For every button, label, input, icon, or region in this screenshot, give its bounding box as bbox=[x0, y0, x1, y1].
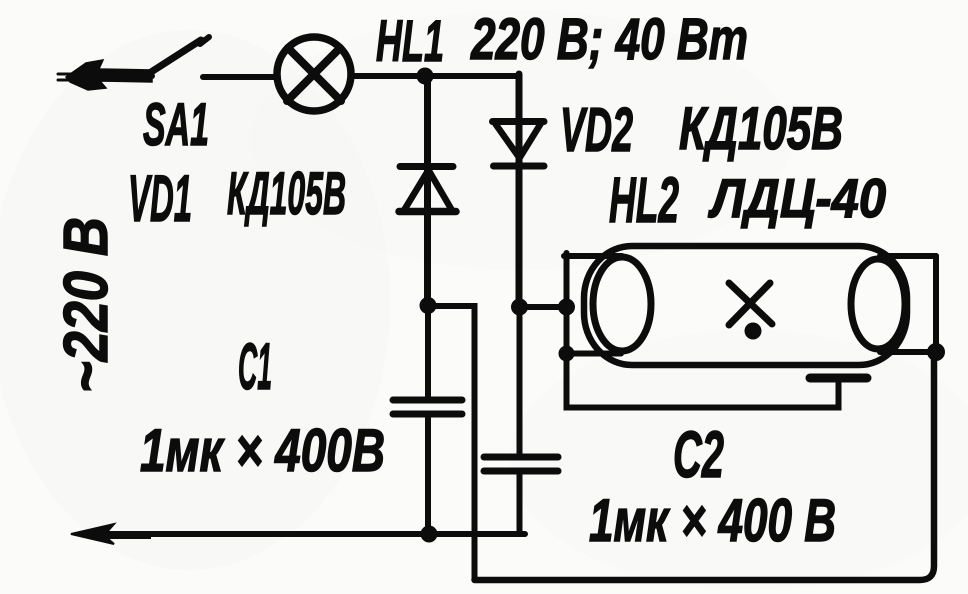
wire lamp left bracket top lead bbox=[564, 253, 622, 259]
lamp HL1 (circle with X) bbox=[277, 37, 351, 111]
wire bottom loop horizontal to right side bbox=[475, 352, 935, 580]
diode VD1 (pointing up) bbox=[399, 167, 456, 212]
wire C1 to bottom wire bbox=[425, 414, 431, 534]
switch SA1 bbox=[148, 37, 209, 74]
wire C1 branch vertical from node to C1 bbox=[425, 306, 431, 400]
node junction (429,534) bbox=[421, 526, 438, 543]
node arrow bottom-left (~220 V supply, lower lead) bbox=[71, 524, 150, 544]
diode VD2 (pointing down) bbox=[493, 122, 545, 167]
wire node(428,305) right and down to bottom loop bbox=[428, 306, 475, 580]
wire lamp left bracket vertical bbox=[564, 253, 570, 406]
wire lamp left bracket bottom lead bbox=[567, 351, 622, 357]
electrode T-bar under lamp bbox=[810, 374, 867, 383]
svg-text:C1: C1 bbox=[238, 329, 272, 403]
svg-text:220 В; 40 Вт: 220 В; 40 Вт bbox=[470, 7, 748, 72]
lamp HL2 tube outline bbox=[584, 246, 907, 365]
lamp HL2 left filament ellipse bbox=[593, 257, 651, 351]
wire lamp right bottom lead bbox=[880, 349, 936, 355]
wire node(519,307) to lamp left bracket bbox=[520, 304, 567, 310]
wire switch to lamp HL1 bbox=[203, 74, 278, 80]
wire top-left horizontal to switch bbox=[100, 73, 152, 79]
node junction (424,76) bbox=[417, 68, 434, 85]
node junction (936,352) bbox=[927, 343, 945, 361]
capacitor C1 bbox=[393, 400, 462, 414]
capacitor C2 bbox=[484, 457, 558, 471]
svg-text:VD1: VD1 bbox=[128, 161, 192, 235]
svg-text:C2: C2 bbox=[673, 417, 724, 491]
lamp HL2 right filament ellipse bbox=[851, 259, 905, 349]
wire C2 branch vertical bbox=[517, 307, 523, 457]
svg-text:КД105В: КД105В bbox=[227, 160, 346, 227]
wire C2 to bottom wire bbox=[517, 471, 523, 534]
svg-text:~220 В: ~220 В bbox=[52, 217, 121, 393]
wire bottom horizontal (arrow to C2 bottom) bbox=[105, 531, 525, 537]
wire top to VD2 corner bbox=[425, 73, 519, 79]
wire vertical through VD2 bbox=[516, 74, 523, 307]
node junction (566,307) lamp left bracket bbox=[558, 299, 575, 316]
node junction (428,305) bbox=[420, 297, 437, 314]
svg-text:HL1: HL1 bbox=[376, 9, 444, 74]
svg-text:КД105В: КД105В bbox=[679, 95, 843, 162]
wire lamp lower bus to electrode stem bbox=[567, 383, 839, 408]
wire lamp right bracket vertical bbox=[933, 256, 939, 352]
svg-text:1мк × 400 В: 1мк × 400 В bbox=[589, 487, 836, 554]
wire lamp HL1 to node at x=424 bbox=[351, 73, 424, 79]
svg-text:SA1: SA1 bbox=[143, 91, 209, 158]
node junction (566,353) bbox=[559, 346, 575, 362]
wire lamp right bracket top lead bbox=[880, 253, 936, 259]
svg-text:ЛДЦ-40: ЛДЦ-40 bbox=[707, 167, 886, 229]
node arrow top-left (~220 V supply, upper lead) bbox=[58, 60, 152, 90]
wire vertical through VD1 bbox=[424, 76, 431, 306]
svg-text:VD2: VD2 bbox=[560, 96, 633, 165]
svg-text:HL2: HL2 bbox=[609, 164, 679, 236]
node junction (519,307) bbox=[511, 299, 528, 316]
svg-text:1мк × 400В: 1мк × 400В bbox=[140, 417, 385, 484]
lamp HL2 X mark with dot bbox=[729, 283, 772, 340]
